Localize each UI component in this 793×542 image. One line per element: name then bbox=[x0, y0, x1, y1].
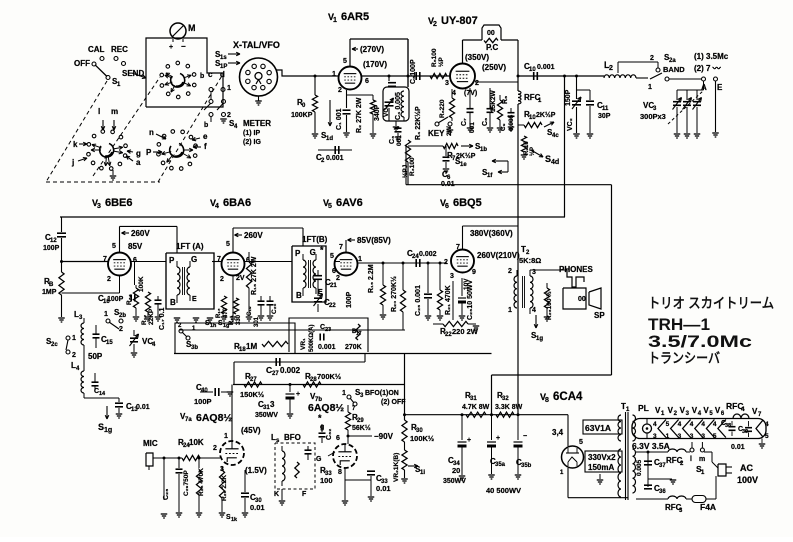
svg-text:4: 4 bbox=[713, 421, 717, 428]
svg-text:1: 1 bbox=[224, 433, 228, 440]
svg-text:2V: 2V bbox=[236, 275, 245, 282]
svg-text:40 500WV: 40 500WV bbox=[486, 486, 521, 495]
svg-text:MIC: MIC bbox=[143, 439, 158, 448]
svg-text:1g: 1g bbox=[536, 336, 543, 342]
svg-text:VR₁: VR₁ bbox=[300, 338, 307, 350]
svg-text:+: + bbox=[496, 435, 500, 442]
svg-text:6AQ8½: 6AQ8½ bbox=[196, 412, 232, 424]
svg-text:100P: 100P bbox=[346, 291, 353, 308]
svg-text:−90V: −90V bbox=[374, 432, 394, 441]
svg-text:m: m bbox=[699, 456, 705, 463]
svg-text:g: g bbox=[136, 149, 141, 158]
svg-text:5: 5 bbox=[579, 439, 583, 446]
svg-text:6: 6 bbox=[445, 203, 449, 210]
svg-text:0.002: 0.002 bbox=[419, 251, 437, 258]
svg-text:R₆220: R₆220 bbox=[439, 99, 446, 118]
svg-text:260V: 260V bbox=[131, 229, 150, 238]
svg-text:150mA: 150mA bbox=[588, 463, 614, 472]
svg-text:b: b bbox=[204, 122, 208, 129]
svg-text:5: 5 bbox=[765, 433, 769, 440]
svg-text:PL: PL bbox=[638, 403, 649, 413]
svg-text:5K:8Ω: 5K:8Ω bbox=[519, 256, 541, 265]
svg-text:(1) IP: (1) IP bbox=[243, 130, 260, 137]
svg-text:+: + bbox=[169, 44, 173, 51]
svg-text:10K: 10K bbox=[189, 438, 204, 447]
svg-text:½P: ½P bbox=[437, 57, 445, 67]
svg-text:C₈: C₈ bbox=[482, 118, 489, 126]
svg-text:0.005: 0.005 bbox=[636, 459, 643, 476]
svg-text:85V(85V): 85V(85V) bbox=[357, 236, 391, 245]
svg-text:2: 2 bbox=[444, 259, 448, 266]
svg-text:8: 8 bbox=[545, 397, 549, 404]
svg-text:0.005: 0.005 bbox=[508, 114, 515, 131]
svg-text:(250V): (250V) bbox=[482, 63, 506, 72]
svg-text:5: 5 bbox=[112, 243, 116, 250]
svg-text:100P: 100P bbox=[107, 296, 124, 303]
svg-text:C₇: C₇ bbox=[461, 118, 468, 126]
svg-text:1d: 1d bbox=[326, 136, 333, 142]
svg-text:R₄ 22K½P: R₄ 22K½P bbox=[414, 106, 422, 140]
svg-text:2: 2 bbox=[107, 276, 111, 283]
svg-text:1: 1 bbox=[508, 307, 512, 314]
svg-text:d: d bbox=[220, 70, 225, 79]
svg-text:260V: 260V bbox=[244, 231, 263, 240]
svg-text:85V: 85V bbox=[128, 242, 143, 251]
svg-text:100P: 100P bbox=[43, 245, 60, 252]
svg-text:2: 2 bbox=[650, 55, 654, 62]
svg-text:B: B bbox=[296, 291, 302, 300]
svg-text:35b: 35b bbox=[521, 463, 532, 469]
svg-text:17: 17 bbox=[356, 331, 362, 337]
svg-text:3: 3 bbox=[653, 433, 657, 440]
svg-text:100K½: 100K½ bbox=[410, 434, 434, 443]
svg-text:1: 1 bbox=[104, 311, 108, 318]
svg-text:4: 4 bbox=[215, 203, 219, 210]
svg-text:M: M bbox=[188, 23, 196, 33]
svg-text:2b: 2b bbox=[119, 313, 126, 319]
svg-text:P: P bbox=[295, 249, 301, 258]
svg-text:R₃100: R₃100 bbox=[409, 157, 416, 176]
svg-text:C₁ 001: C₁ 001 bbox=[336, 108, 343, 130]
svg-text:5: 5 bbox=[328, 203, 332, 210]
svg-text:3: 3 bbox=[450, 273, 454, 280]
svg-text:2: 2 bbox=[433, 21, 437, 28]
svg-text:4: 4 bbox=[653, 421, 657, 428]
svg-text:BFO(1)ON: BFO(1)ON bbox=[365, 390, 399, 397]
svg-text:63V1A: 63V1A bbox=[585, 423, 611, 433]
svg-text:SP: SP bbox=[594, 311, 605, 320]
svg-text:2: 2 bbox=[227, 112, 231, 119]
svg-text:B: B bbox=[170, 298, 176, 307]
svg-text:+: + bbox=[296, 391, 300, 398]
svg-text:7: 7 bbox=[456, 244, 460, 251]
svg-text:0.002: 0.002 bbox=[280, 366, 301, 375]
svg-text:0.01: 0.01 bbox=[731, 444, 745, 451]
svg-text:10: 10 bbox=[529, 67, 536, 73]
svg-text:100KP: 100KP bbox=[291, 112, 313, 119]
svg-text:3: 3 bbox=[97, 203, 101, 210]
svg-text:6.3V 3.5A: 6.3V 3.5A bbox=[632, 441, 670, 451]
svg-text:C₂₉750P: C₂₉750P bbox=[183, 470, 190, 496]
svg-text:2: 2 bbox=[508, 268, 512, 275]
svg-text:8: 8 bbox=[338, 469, 342, 476]
svg-text:31: 31 bbox=[470, 396, 477, 402]
svg-text:29: 29 bbox=[357, 418, 364, 424]
svg-text:1b: 1b bbox=[480, 147, 487, 153]
svg-text:VR₂1K(B): VR₂1K(B) bbox=[393, 453, 400, 482]
svg-text:10V: 10V bbox=[463, 278, 470, 290]
svg-text:0.01: 0.01 bbox=[250, 503, 265, 512]
svg-text:1: 1 bbox=[342, 390, 346, 397]
svg-text:380V(360V): 380V(360V) bbox=[470, 229, 513, 238]
svg-text:1: 1 bbox=[666, 433, 670, 440]
svg-text:1i: 1i bbox=[420, 470, 425, 476]
svg-text:OFF: OFF bbox=[74, 59, 90, 68]
svg-text:2W: 2W bbox=[446, 125, 453, 136]
svg-text:R₂₁ 470K: R₂₁ 470K bbox=[445, 285, 452, 315]
svg-text:C₁₉: C₁₉ bbox=[247, 306, 253, 316]
svg-text:(2) 7 〰: (2) 7 〰 bbox=[694, 64, 722, 73]
svg-text:6: 6 bbox=[336, 435, 340, 442]
svg-text:0.001: 0.001 bbox=[537, 64, 555, 71]
svg-text:001: 001 bbox=[469, 122, 476, 133]
svg-text:R₁₃: R₁₃ bbox=[216, 308, 222, 318]
svg-text:5: 5 bbox=[343, 58, 347, 65]
svg-text:P.C: P.C bbox=[486, 43, 499, 52]
svg-text:4d: 4d bbox=[551, 159, 559, 166]
svg-text:(1) 3.5Mc: (1) 3.5Mc bbox=[694, 52, 729, 61]
svg-text:BAND: BAND bbox=[663, 65, 685, 74]
svg-text:(270V): (270V) bbox=[360, 45, 384, 54]
svg-text:1g: 1g bbox=[104, 427, 112, 434]
svg-text:32: 32 bbox=[502, 396, 509, 402]
svg-text:350WV: 350WV bbox=[443, 478, 466, 485]
svg-text:1: 1 bbox=[333, 17, 337, 24]
svg-text:1M: 1M bbox=[246, 342, 257, 351]
svg-text:VC₂: VC₂ bbox=[567, 118, 574, 131]
svg-text:4: 4 bbox=[701, 421, 705, 428]
svg-text:−: − bbox=[523, 433, 527, 440]
svg-text:0.01: 0.01 bbox=[136, 404, 150, 411]
svg-text:00: 00 bbox=[487, 30, 495, 37]
svg-text:5: 5 bbox=[330, 253, 334, 260]
svg-text:R₂₅ 470K: R₂₅ 470K bbox=[198, 468, 205, 496]
svg-text:3b: 3b bbox=[191, 345, 198, 351]
svg-text:150K½: 150K½ bbox=[240, 390, 264, 399]
svg-text:1: 1 bbox=[358, 256, 362, 263]
svg-text:7: 7 bbox=[103, 256, 107, 263]
svg-text:2: 2 bbox=[119, 326, 123, 333]
svg-text:3: 3 bbox=[445, 80, 449, 87]
svg-text:F4A: F4A bbox=[700, 502, 716, 512]
svg-text:−: − bbox=[181, 42, 186, 51]
svg-text:TRH—1: TRH—1 bbox=[648, 316, 710, 334]
svg-text:100: 100 bbox=[320, 476, 333, 485]
svg-text:トリオ スカイトリーム: トリオ スカイトリーム bbox=[648, 295, 774, 311]
svg-text:500KΩ(A): 500KΩ(A) bbox=[309, 325, 315, 352]
svg-text:30P: 30P bbox=[598, 113, 611, 120]
svg-text:E: E bbox=[192, 296, 197, 303]
svg-text:220 2W: 220 2W bbox=[452, 327, 479, 336]
svg-text:C₂₈: C₂₈ bbox=[163, 489, 170, 500]
svg-text:00: 00 bbox=[578, 296, 586, 303]
svg-text:K: K bbox=[274, 491, 279, 498]
svg-text:22: 22 bbox=[329, 303, 336, 309]
svg-text:3.5/7.0Mc: 3.5/7.0Mc bbox=[648, 333, 752, 351]
svg-text:1g: 1g bbox=[223, 323, 229, 329]
svg-text:35a: 35a bbox=[495, 462, 506, 468]
svg-text:e: e bbox=[203, 132, 208, 141]
svg-text:37: 37 bbox=[659, 463, 666, 469]
svg-text:m: m bbox=[111, 107, 118, 116]
svg-text:27: 27 bbox=[272, 371, 279, 377]
svg-text:2: 2 bbox=[475, 80, 479, 87]
svg-text:14: 14 bbox=[99, 391, 106, 397]
svg-text:F: F bbox=[302, 491, 307, 498]
svg-text:R₂₀ 270K½: R₂₀ 270K½ bbox=[390, 276, 398, 312]
svg-text:4: 4 bbox=[532, 307, 536, 314]
svg-text:4.7K 8W: 4.7K 8W bbox=[462, 404, 490, 411]
svg-text:1: 1 bbox=[72, 335, 76, 342]
svg-text:R₂₆ 2.2K: R₂₆ 2.2K bbox=[221, 475, 228, 501]
svg-text:20: 20 bbox=[452, 466, 460, 475]
svg-text:1P: 1P bbox=[220, 64, 227, 70]
svg-text:150P: 150P bbox=[565, 89, 572, 106]
svg-text:6BQ5: 6BQ5 bbox=[453, 197, 482, 209]
svg-text:1: 1 bbox=[332, 71, 336, 78]
svg-text:k: k bbox=[73, 140, 78, 149]
svg-text:C₃₂: C₃₂ bbox=[326, 429, 333, 440]
svg-text:6: 6 bbox=[365, 78, 369, 85]
svg-text:+: + bbox=[467, 437, 471, 444]
svg-text:(1.5V): (1.5V) bbox=[245, 466, 267, 475]
svg-text:f: f bbox=[204, 142, 207, 151]
svg-text:36: 36 bbox=[659, 489, 666, 495]
svg-text:1FT (A): 1FT (A) bbox=[176, 242, 204, 251]
svg-text:P: P bbox=[146, 148, 152, 157]
svg-text:a: a bbox=[136, 158, 141, 167]
svg-text:2: 2 bbox=[213, 445, 217, 452]
svg-text:350WV: 350WV bbox=[255, 412, 278, 419]
svg-text:2: 2 bbox=[609, 65, 613, 72]
svg-text:3: 3 bbox=[678, 433, 682, 440]
svg-text:7a: 7a bbox=[185, 417, 192, 423]
svg-text:PHONES: PHONES bbox=[559, 265, 593, 274]
svg-text:1: 1 bbox=[227, 85, 231, 92]
svg-text:1FT(B): 1FT(B) bbox=[302, 235, 328, 244]
svg-text:R₈: R₈ bbox=[502, 96, 509, 104]
svg-text:X-TAL/VFO: X-TAL/VFO bbox=[233, 40, 280, 50]
svg-text:5: 5 bbox=[713, 433, 717, 440]
svg-text:*: * bbox=[318, 413, 322, 423]
svg-text:4: 4 bbox=[452, 90, 456, 97]
svg-text:2: 2 bbox=[72, 352, 76, 359]
svg-text:11: 11 bbox=[602, 106, 609, 112]
svg-text:c: c bbox=[208, 70, 213, 79]
svg-text:1: 1 bbox=[648, 84, 652, 91]
svg-text:B: B bbox=[49, 282, 54, 288]
svg-text:3: 3 bbox=[690, 433, 694, 440]
svg-text:(45V): (45V) bbox=[241, 426, 261, 435]
svg-text:7: 7 bbox=[339, 244, 343, 251]
svg-text:50P: 50P bbox=[88, 352, 103, 361]
svg-text:VC₁: VC₁ bbox=[383, 105, 390, 117]
svg-text:BFO: BFO bbox=[284, 433, 301, 442]
svg-text:3: 3 bbox=[701, 433, 705, 440]
svg-text:REC: REC bbox=[111, 45, 128, 54]
svg-text:E: E bbox=[717, 83, 723, 92]
svg-text:6BA6: 6BA6 bbox=[223, 197, 251, 209]
svg-text:(2) OFF: (2) OFF bbox=[381, 399, 406, 406]
svg-text:1MP: 1MP bbox=[42, 289, 57, 296]
svg-text:2: 2 bbox=[336, 275, 340, 282]
svg-text:1s: 1s bbox=[220, 55, 227, 61]
svg-text:(170V): (170V) bbox=[363, 60, 387, 69]
svg-text:2K½P: 2K½P bbox=[536, 111, 556, 119]
svg-text:260V(210V): 260V(210V) bbox=[477, 251, 520, 260]
svg-text:12: 12 bbox=[50, 238, 57, 244]
svg-text:0.01: 0.01 bbox=[376, 484, 391, 493]
svg-text:56K½: 56K½ bbox=[352, 424, 371, 432]
svg-text:CAL: CAL bbox=[88, 45, 105, 54]
svg-text:6BE6: 6BE6 bbox=[105, 197, 133, 209]
svg-text:330Vx2: 330Vx2 bbox=[588, 453, 616, 462]
svg-text:2a: 2a bbox=[669, 58, 676, 64]
svg-text:3.3K 8W: 3.3K 8W bbox=[495, 404, 523, 411]
svg-text:METER: METER bbox=[243, 119, 271, 128]
svg-text:R₁₉ 2.2M: R₁₉ 2.2M bbox=[368, 264, 375, 293]
svg-text:270K: 270K bbox=[345, 344, 362, 351]
svg-text:R₂₃100 ½: R₂₃100 ½ bbox=[545, 291, 553, 320]
svg-text:1e: 1e bbox=[460, 162, 467, 168]
svg-text:1h: 1h bbox=[210, 323, 217, 329]
svg-text:G: G bbox=[316, 456, 322, 463]
svg-text:トランシーバ: トランシーバ bbox=[648, 350, 720, 366]
svg-text:j: j bbox=[71, 158, 74, 167]
svg-text:(2) IG: (2) IG bbox=[243, 139, 261, 146]
svg-text:301: 301 bbox=[254, 316, 260, 327]
svg-text:6AR5: 6AR5 bbox=[341, 11, 369, 23]
svg-text:4: 4 bbox=[678, 421, 682, 428]
svg-text:n: n bbox=[149, 128, 154, 137]
svg-text:4: 4 bbox=[741, 406, 745, 413]
svg-text:5: 5 bbox=[226, 241, 230, 248]
svg-text:3: 3 bbox=[270, 400, 275, 409]
svg-text:1k: 1k bbox=[231, 517, 238, 523]
svg-text:l: l bbox=[98, 107, 100, 116]
svg-text:22KP: 22KP bbox=[148, 308, 155, 325]
svg-text:0.001: 0.001 bbox=[326, 155, 344, 162]
svg-text:AC: AC bbox=[740, 463, 753, 473]
svg-text:2c: 2c bbox=[51, 342, 58, 348]
svg-text:P: P bbox=[169, 256, 175, 265]
svg-text:b: b bbox=[200, 73, 204, 80]
svg-text:15: 15 bbox=[106, 340, 113, 346]
svg-text:9: 9 bbox=[472, 269, 476, 276]
svg-text:100K: 100K bbox=[138, 276, 145, 292]
svg-text:2: 2 bbox=[338, 87, 342, 94]
svg-text:UY-807: UY-807 bbox=[441, 15, 478, 27]
svg-text:700K½: 700K½ bbox=[317, 372, 341, 381]
svg-text:6: 6 bbox=[332, 268, 336, 275]
svg-text:½PJ: ½PJ bbox=[401, 164, 409, 178]
svg-text:R₅100: R₅100 bbox=[431, 48, 438, 67]
svg-text:R₁₂: R₁₂ bbox=[141, 315, 148, 325]
svg-text:C₂₀: C₂₀ bbox=[271, 303, 278, 314]
svg-text:21: 21 bbox=[330, 283, 337, 289]
svg-text:6AQ8½: 6AQ8½ bbox=[308, 402, 344, 414]
svg-text:340P: 340P bbox=[374, 104, 381, 121]
svg-text:5: 5 bbox=[666, 421, 670, 428]
svg-text:C₂₅ 0.001: C₂₅ 0.001 bbox=[415, 285, 422, 316]
svg-text:300Px3: 300Px3 bbox=[640, 112, 666, 121]
svg-text:4: 4 bbox=[765, 421, 769, 428]
svg-text:C₉: C₉ bbox=[500, 123, 507, 131]
svg-text:C₄ 0.005: C₄ 0.005 bbox=[395, 92, 402, 120]
svg-text:3,4: 3,4 bbox=[552, 428, 564, 437]
svg-text:100V: 100V bbox=[737, 475, 758, 485]
svg-text:100P: 100P bbox=[194, 397, 212, 406]
svg-text:0.001: 0.001 bbox=[318, 344, 336, 351]
svg-text:KEY: KEY bbox=[428, 129, 445, 138]
svg-text:4: 4 bbox=[690, 421, 694, 428]
svg-text:(7V): (7V) bbox=[464, 90, 477, 97]
svg-text:6CA4: 6CA4 bbox=[553, 391, 583, 403]
svg-text:4c: 4c bbox=[552, 133, 559, 139]
svg-text:l: l bbox=[690, 456, 692, 463]
svg-text:R₂ 27K 2W: R₂ 27K 2W bbox=[356, 97, 363, 133]
svg-text:G: G bbox=[310, 248, 316, 257]
svg-text:C₁₇ 0.1: C₁₇ 0.1 bbox=[159, 307, 166, 330]
svg-text:2: 2 bbox=[220, 276, 224, 283]
svg-text:23: 23 bbox=[325, 327, 331, 333]
svg-text:G: G bbox=[191, 255, 197, 264]
svg-text:15K2W: 15K2W bbox=[490, 89, 497, 112]
svg-text:C₅100P: C₅100P bbox=[410, 59, 417, 84]
svg-text:(350V): (350V) bbox=[465, 53, 489, 62]
svg-text:40: 40 bbox=[201, 388, 208, 394]
svg-text:6AV6: 6AV6 bbox=[336, 197, 363, 209]
